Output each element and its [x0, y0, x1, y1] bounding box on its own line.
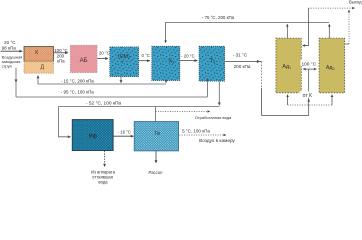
wire: AB to OM [97, 58, 108, 60]
node: regen branch into Ad1 [303, 68, 309, 70]
wire: If to Tv arrow -16C [113, 135, 133, 137]
svg-text:струя: струя [2, 64, 12, 69]
svg-text:Д: Д [41, 64, 45, 70]
cooler Tv (light hatched bottom block) [134, 122, 178, 151]
svg-text:- 16 °С: - 16 °С [118, 129, 131, 134]
svg-text:кПа: кПа [57, 59, 65, 64]
compressor K (hatched block) [24, 47, 54, 62]
wire: riser between adsorbers [308, 69, 310, 115]
wire: X1 bottom drain to L1 [165, 81, 167, 83]
svg-text:- 75 °С, 200 кПа: - 75 °С, 200 кПа [202, 15, 235, 20]
svg-text:20 °С: 20 °С [99, 51, 110, 56]
svg-text:К: К [35, 50, 38, 56]
svg-text:- 15 °С, 200 кПа: - 15 °С, 200 кПа [61, 78, 95, 83]
svg-text:- 52 °С, 100 кПа: - 52 °С, 100 кПа [86, 101, 122, 107]
svg-text:- 31 °С: - 31 °С [233, 52, 248, 57]
svg-text:Выход: Выход [349, 0, 362, 5]
svg-text:Иф: Иф [89, 132, 98, 139]
svg-text:т: т [121, 59, 123, 64]
wire: OM to X1 [139, 60, 150, 62]
wire: Tv bottom brine arrow [155, 151, 157, 163]
engine D (tan block) [24, 61, 54, 73]
label ot K [299, 91, 316, 97]
wire: return line L2 -95C [16, 96, 207, 98]
wire: feed bottom horizontal to riser [262, 115, 309, 117]
wire: return line L1 -15C [38, 83, 166, 85]
wire: K/D to AB [54, 52, 68, 54]
wire: exhaust from Ad2 side [345, 43, 349, 45]
wire: L3 branch down into cooler Tv [155, 107, 157, 122]
svg-text:Отработанная вода: Отработанная вода [195, 115, 232, 120]
wire: If bottom dashed drain [104, 151, 106, 167]
absorber AB (pink block) [70, 45, 97, 72]
wire: L2 right end up into T2 bottom [206, 78, 208, 97]
wire: riser up arrowhead below label [308, 99, 310, 101]
wire: hot gas line from top into Ad1 side [303, 8, 309, 45]
wire: T2 bottom drain onto L3 [218, 81, 220, 105]
wire: L2 left vent from stream label [15, 68, 17, 83]
separator If (dark hatched bottom-left block) [72, 120, 113, 151]
wire: waste water dotted arrow [156, 111, 210, 113]
wire: OM bottom drain to L1 [120, 77, 122, 83]
svg-text:АБ: АБ [80, 58, 88, 64]
node: regen branch into Ad2 [309, 68, 317, 70]
wire: T2 outlet to adsorber feed [225, 61, 260, 63]
svg-text:- 20 °С: - 20 °С [181, 54, 194, 59]
wire: 5C air out dotted [179, 134, 226, 136]
svg-text:Воздух в камеру: Воздух в камеру [199, 138, 235, 143]
svg-text:98 кПа: 98 кПа [2, 45, 17, 50]
svg-text:100 °С: 100 °С [54, 48, 69, 53]
wire: dotted manifold under adsorbers [288, 104, 332, 106]
svg-text:Т2: Т2 [210, 58, 216, 64]
svg-text:5 °С, 100 кПа: 5 °С, 100 кПа [182, 129, 210, 134]
svg-text:100 °С: 100 °С [301, 61, 316, 67]
svg-text:Рассол: Рассол [149, 170, 163, 175]
wire: down arrow into X1 top [165, 22, 167, 43]
svg-text:- 95 °С, 100 кПа: - 95 °С, 100 кПа [61, 90, 95, 95]
wire: L1 up arrow into D bottom [37, 76, 39, 85]
heat exchanger T2 (blue block 3) [199, 46, 225, 81]
wire: feed vertical (dashed upper, solid lower) [261, 62, 263, 89]
wire: line L3 -52C [58, 106, 219, 108]
wire: manifold up arrow into Ad1 bottom [287, 95, 289, 105]
label 100C regen [300, 60, 317, 66]
wire: exhaust dotted vertical up [348, 10, 350, 44]
svg-text:0 °С: 0 °С [141, 53, 149, 58]
wire: cold return line -75C (top) [166, 21, 330, 23]
svg-text:Х1: Х1 [169, 59, 176, 65]
svg-text:от К: от К [303, 93, 312, 99]
svg-text:200 кПа: 200 кПа [234, 64, 251, 69]
svg-text:вода: вода [98, 179, 108, 184]
wire: manifold up arrow into Ad2 bottom [331, 95, 333, 105]
wire: exhaust dotted top line [309, 7, 355, 9]
wire: Ad1 top riser up into return line [286, 24, 288, 38]
svg-text:Тв: Тв [154, 131, 160, 137]
wire: X1 to T2 [180, 60, 197, 62]
wire: L3 down to separator If [58, 107, 70, 137]
adsorber Ad2 (olive block) [319, 38, 345, 93]
wire: inlet air arrow [1, 50, 23, 52]
heat exchanger OM (blue block 1) [110, 47, 139, 77]
adsorber Ad1 (olive block) [276, 38, 301, 93]
heat exchanger X1 (blue block 2) [152, 46, 180, 80]
wire: Ad2 top riser up into return line [328, 24, 330, 38]
svg-text:(ОМ): (ОМ) [118, 54, 130, 60]
